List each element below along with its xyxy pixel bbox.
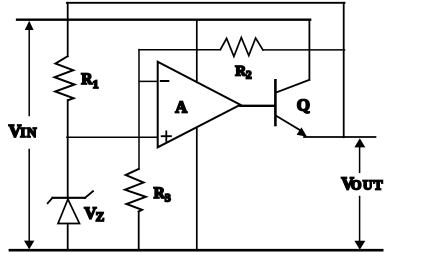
wire R1 top stub [67,3,69,56]
svg-text:R: R [154,185,166,202]
wire op-amp supply bottom [196,127,198,250]
node VIN arrowhead bottom [24,241,34,250]
resistor R1 zigzag [55,56,75,100]
wire R1 bottom to zener [67,100,69,198]
wire R2 left lead [139,49,220,51]
svg-text:Z: Z [96,209,105,224]
transistor Q collector diagonal [277,80,310,93]
zener VZ anode triangle [58,199,80,223]
resistor R2 zigzag [220,38,263,57]
wire minus input lead [139,80,158,82]
node VOUT arrow line lower [359,197,361,242]
node VIN arrowhead top [25,21,34,30]
svg-text:2: 2 [246,70,252,82]
wire op-amp supply top [196,20,198,82]
transistor Q emitter diagonal [277,116,301,131]
op-amp minus symbol [161,80,169,82]
zener VZ cathode bar [53,197,86,199]
wire R2 right lead [263,49,345,51]
wire R3 to bottom rail [138,212,140,251]
op-amp U1 triangle [158,62,241,148]
wire top input rail [17,19,310,21]
svg-text:3: 3 [165,191,171,205]
svg-text:1: 1 [93,77,99,91]
resistor R3 zigzag [125,169,146,212]
op-amp plus symbol [162,131,171,141]
node VIN arrow line lower [28,150,30,242]
node VIN arrow line upper [28,30,30,116]
wire feedback drop to output [343,3,345,137]
zener VZ right tail [85,191,93,198]
svg-text:A: A [175,98,187,117]
wire top feedback horizontal [67,2,345,4]
wire bottom rail [10,249,382,252]
wire rail to collector [308,20,310,80]
node VOUT arrowhead bottom [354,241,365,250]
wire zener to bottom rail [67,224,69,251]
wire output emitter line [304,136,376,138]
svg-text:OUT: OUT [351,178,384,193]
wire base lead [240,105,275,107]
wire inverting node vertical [138,50,140,169]
svg-text:Q: Q [297,95,310,114]
svg-text:IN: IN [20,125,37,140]
svg-text:R: R [235,64,246,80]
svg-text:R: R [81,71,93,88]
node VOUT arrowhead top [354,138,365,147]
node VOUT arrow line upper [359,147,361,172]
zener VZ left tail [48,198,53,203]
transistor Q base bar [274,80,277,125]
transistor Q emitter arrowhead [297,127,307,136]
wire plus input lead [67,136,158,138]
